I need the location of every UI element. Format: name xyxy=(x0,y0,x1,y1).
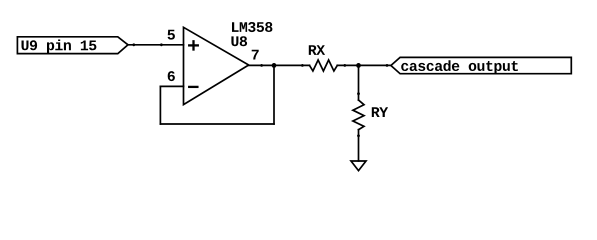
resistor RX xyxy=(309,45,338,71)
ground xyxy=(351,161,366,171)
wire resistor RX to output tag xyxy=(337,64,391,67)
pin number 7 xyxy=(252,50,259,60)
junction at op-amp output feedback node xyxy=(272,63,277,68)
wire op-amp output to resistor RX xyxy=(249,64,310,67)
wire resistor RY to ground xyxy=(357,130,360,161)
wire op-amp - input stub xyxy=(160,85,183,87)
pin number 6 xyxy=(168,71,175,81)
op-amp U8 (LM358) triangle xyxy=(184,27,249,104)
reference designator U8 xyxy=(231,36,247,46)
wire feedback bottom horizontal xyxy=(160,123,274,125)
pin number 5 xyxy=(168,30,175,40)
op-amp + input symbol xyxy=(189,41,198,49)
wire from input tag to op-amp + input xyxy=(128,43,184,46)
wire feedback left vertical xyxy=(159,86,161,124)
output tag cascade output xyxy=(391,57,571,74)
value label LM358 xyxy=(232,22,272,32)
input tag U9 pin 15 xyxy=(17,37,128,54)
op-amp - input symbol xyxy=(189,86,197,88)
resistor RY xyxy=(353,100,388,130)
wire feedback right vertical xyxy=(273,65,275,124)
wire node down to resistor RY xyxy=(357,65,360,100)
junction at RX / RY node xyxy=(356,63,361,68)
